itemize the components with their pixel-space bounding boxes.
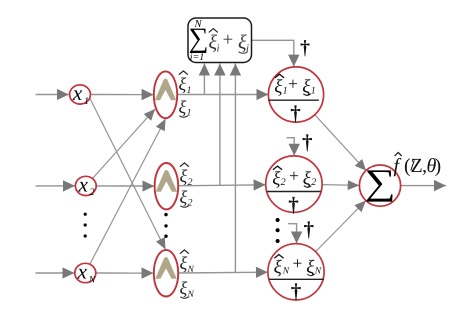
svg-text:2: 2 — [281, 177, 286, 188]
wire x2 to MF1 diagonal — [93, 109, 155, 178]
wire x2 to MF2 — [96, 185, 154, 187]
svg-text:1: 1 — [283, 85, 288, 96]
dagger label near divider1 feed — [300, 37, 310, 59]
dagger label near dividerN feed — [304, 217, 315, 241]
membership node MF2 — [155, 163, 179, 209]
wire output arrow — [401, 185, 446, 187]
svg-text:+: + — [293, 253, 303, 273]
membership node MFN — [154, 250, 178, 297]
svg-text:∑: ∑ — [364, 162, 395, 203]
wire input arrow 1 — [36, 94, 69, 96]
membership node MF1 — [154, 71, 177, 118]
wire MF1 to divider1 — [177, 94, 268, 96]
wire elbow into dividerN — [288, 224, 296, 244]
svg-text:+: + — [289, 166, 299, 186]
svg-text:N: N — [187, 290, 195, 300]
svg-text:N: N — [187, 265, 195, 275]
svg-text:x: x — [78, 173, 89, 197]
svg-text:ξ: ξ — [179, 74, 187, 94]
svg-text:1: 1 — [311, 85, 316, 96]
sum box U1 — [188, 18, 252, 63]
divider node 1 — [268, 67, 323, 125]
dots between MF2 and MFN — [164, 213, 167, 238]
svg-text:†: † — [290, 101, 301, 125]
wire tap1 up to sum box — [203, 64, 205, 95]
svg-text:N: N — [314, 267, 322, 277]
node x1 — [70, 81, 91, 107]
svg-text:i=1: i=1 — [190, 52, 205, 63]
wire MFN to dividerN — [178, 271, 268, 274]
svg-text:ξ: ξ — [180, 278, 188, 298]
wire MF2 to divider2 — [178, 185, 266, 186]
dots between divider2 and dividerN — [276, 218, 280, 243]
svg-text:ξ: ξ — [180, 187, 188, 207]
label xi-hat-1 / xi-under-1 beside MF1 — [179, 71, 192, 119]
svg-text:2: 2 — [188, 177, 193, 188]
svg-text:†: † — [300, 37, 310, 59]
svg-text:†: † — [302, 130, 313, 154]
svg-text:): ) — [435, 155, 442, 177]
node x2 — [75, 173, 96, 199]
dagger label near divider2 feed — [302, 130, 313, 154]
svg-text:ξ: ξ — [180, 166, 188, 186]
svg-text:N: N — [193, 19, 202, 30]
svg-text:N: N — [88, 275, 96, 285]
wire divider1 to sigma node — [315, 115, 367, 171]
label xi-hat-N / xi-under-N beside MFN — [180, 250, 195, 300]
svg-text:2: 2 — [90, 187, 95, 198]
wire x1 to MFN diagonal — [90, 98, 166, 250]
svg-text:ξ: ξ — [274, 257, 283, 278]
svg-text:i: i — [217, 43, 220, 55]
wire tap3 up to sum box — [234, 64, 236, 274]
wire elbow into divider2 — [287, 138, 295, 156]
svg-text:N: N — [282, 267, 290, 277]
svg-text:ξ: ξ — [180, 253, 188, 273]
wire divider2 to sigma node — [322, 184, 359, 187]
wire sum box to divider1 elbow — [252, 40, 294, 66]
label xi-hat-2 / xi-under-2 beside MF2 — [180, 163, 193, 209]
wire xN to MF1 diagonal — [90, 119, 166, 264]
sigma output node — [359, 162, 400, 206]
svg-text:†: † — [304, 217, 315, 241]
svg-text:+: + — [288, 74, 298, 94]
svg-text:†: † — [291, 279, 302, 303]
svg-text:+: + — [223, 30, 234, 51]
wire input arrow 2 — [36, 185, 76, 187]
svg-text:†: † — [288, 193, 299, 217]
wire dividerN to sigma node — [316, 201, 366, 252]
dots between x2 and xN — [84, 213, 87, 238]
wire x1 to MF1 — [90, 94, 153, 96]
svg-text:x: x — [72, 81, 83, 105]
svg-text:ξ: ξ — [179, 97, 187, 117]
svg-text:2: 2 — [188, 198, 193, 209]
divider node 2 — [266, 156, 322, 217]
label f-hat(Z,theta) — [394, 153, 442, 178]
svg-text:1: 1 — [187, 85, 192, 96]
svg-text:x: x — [77, 260, 88, 284]
divider node N — [268, 244, 324, 303]
wire xN to MFN — [96, 272, 154, 274]
wire tap2 up to sum box — [219, 64, 221, 186]
svg-text:i: i — [246, 43, 249, 55]
wire input arrow N — [36, 272, 75, 274]
svg-text:1: 1 — [84, 96, 89, 107]
node xN — [75, 260, 96, 286]
svg-text:1: 1 — [187, 108, 192, 119]
svg-text:2: 2 — [311, 177, 316, 188]
